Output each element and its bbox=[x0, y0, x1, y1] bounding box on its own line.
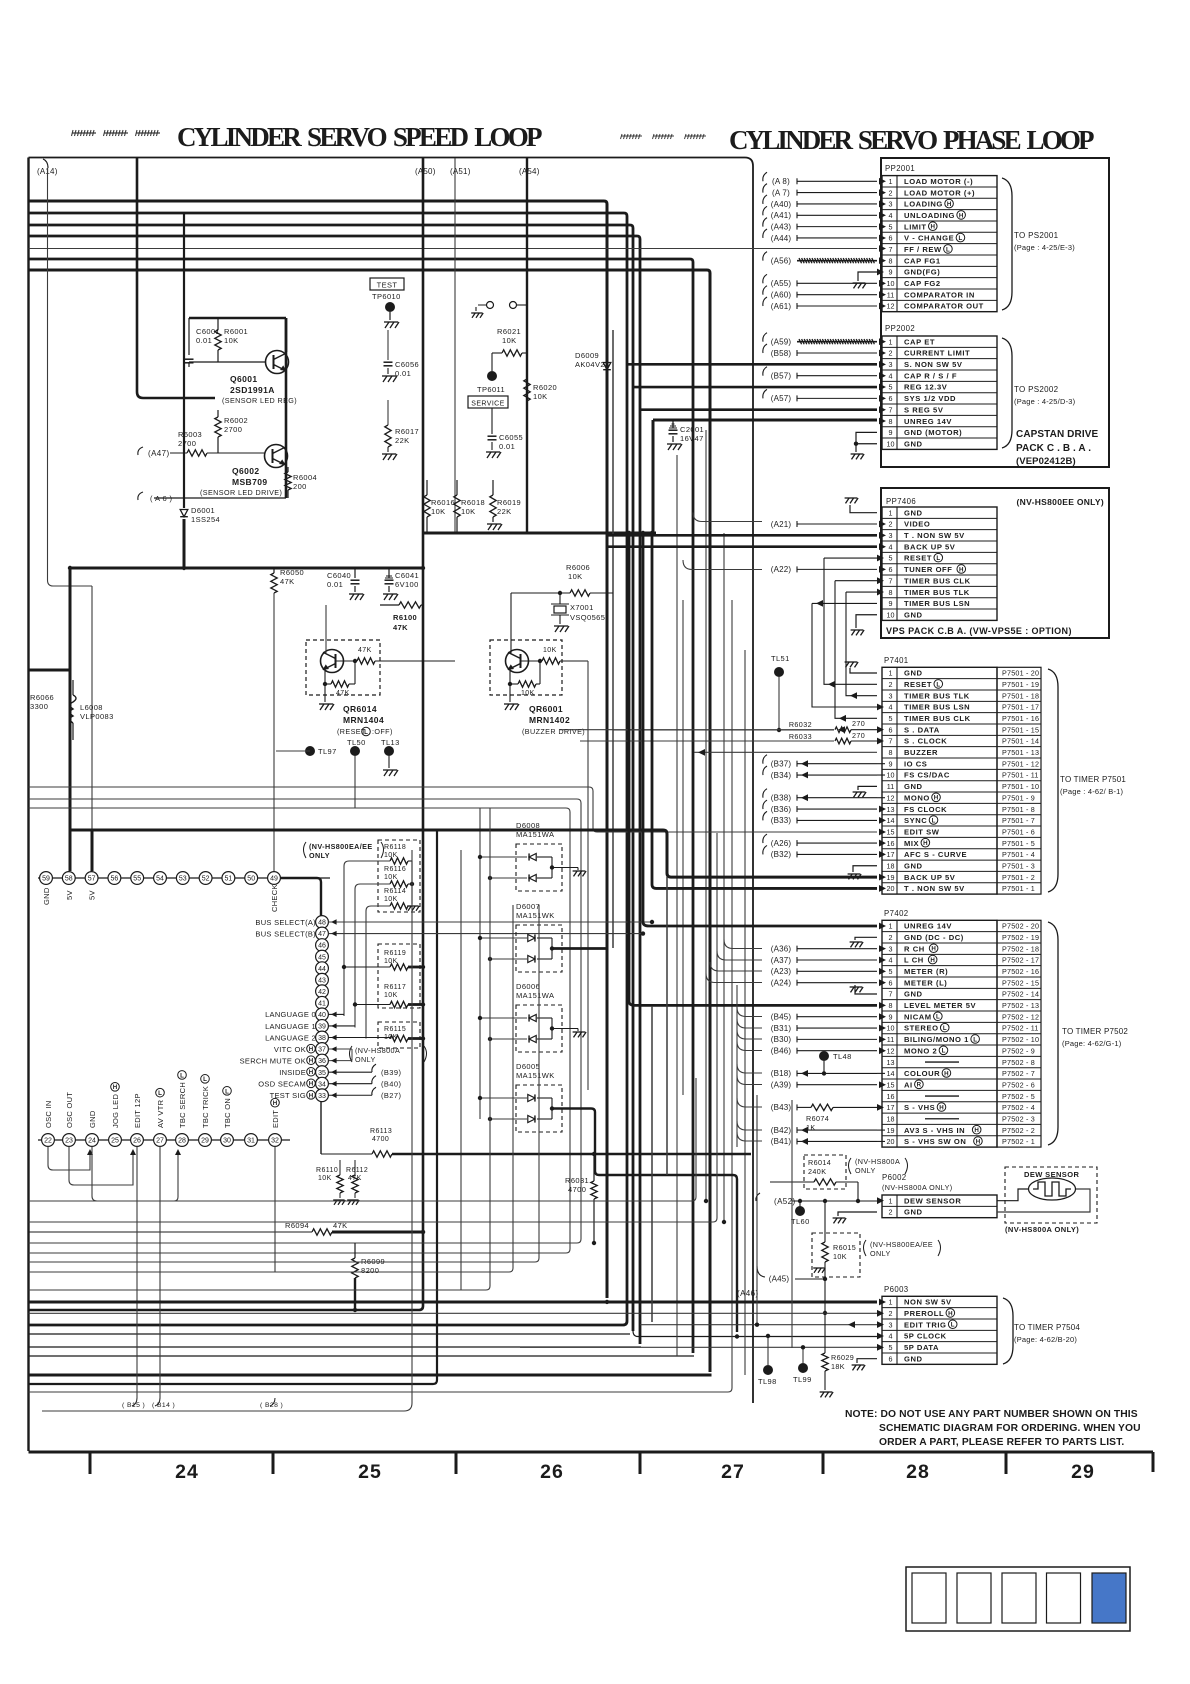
svg-text:(B57): (B57) bbox=[771, 371, 792, 380]
svg-text:GND: GND bbox=[42, 887, 51, 905]
svg-text:R6032: R6032 bbox=[789, 720, 812, 729]
arrows into pin column circles bbox=[331, 919, 337, 924]
svg-text:MIX: MIX bbox=[904, 839, 919, 848]
svg-text:5: 5 bbox=[889, 967, 893, 976]
resistor R6016 bbox=[424, 495, 430, 517]
svg-text:7: 7 bbox=[889, 405, 893, 414]
node B37 bbox=[763, 755, 767, 764]
svg-text:TL50: TL50 bbox=[347, 738, 366, 747]
svg-text:10K: 10K bbox=[461, 507, 476, 516]
svg-text:L CH: L CH bbox=[904, 956, 924, 965]
wire PP2002 pin3 thick bbox=[627, 363, 877, 366]
svg-text:52: 52 bbox=[202, 876, 210, 883]
node A43 bbox=[763, 218, 767, 227]
svg-text:28: 28 bbox=[906, 1461, 930, 1483]
node A52 bbox=[756, 1193, 760, 1201]
wire left border vertical bbox=[27, 158, 29, 1452]
svg-text:P7501 - 3: P7501 - 3 bbox=[1002, 861, 1035, 870]
ground P7401 pin18 bbox=[853, 866, 877, 872]
svg-text:8: 8 bbox=[889, 256, 893, 265]
wire A54 vertical bbox=[526, 158, 528, 533]
wire P7401 pin4 staircase bbox=[812, 603, 877, 707]
svg-text:10K: 10K bbox=[502, 336, 517, 345]
svg-text:27: 27 bbox=[721, 1461, 745, 1483]
svg-text:9: 9 bbox=[889, 428, 893, 437]
svg-text:22K: 22K bbox=[395, 436, 410, 445]
svg-text:Q6002: Q6002 bbox=[232, 466, 260, 476]
svg-text:29: 29 bbox=[201, 1138, 209, 1145]
svg-text:6: 6 bbox=[889, 978, 893, 987]
node A44 bbox=[763, 229, 767, 238]
svg-text:10: 10 bbox=[887, 1024, 895, 1033]
svg-text:5: 5 bbox=[889, 222, 893, 231]
wire P6003 pin5 bbox=[520, 1346, 877, 1348]
test point TL60 bbox=[795, 1206, 805, 1216]
wire pin22 hook bbox=[48, 1147, 90, 1171]
wire Q-block right x286 bbox=[285, 318, 288, 498]
svg-text:RESET: RESET bbox=[904, 554, 932, 563]
wire PP7406 pin3 thick bbox=[607, 534, 877, 537]
svg-text:15: 15 bbox=[887, 827, 895, 836]
svg-text:R CH: R CH bbox=[904, 944, 925, 953]
wire right block edge vertical bbox=[752, 166, 754, 1403]
node B58 bbox=[763, 344, 767, 353]
svg-text:5P DATA: 5P DATA bbox=[904, 1343, 939, 1352]
svg-text:(B43): (B43) bbox=[771, 1103, 792, 1112]
svg-text:13: 13 bbox=[887, 1058, 895, 1067]
svg-text:51: 51 bbox=[225, 876, 233, 883]
svg-text:MSB709: MSB709 bbox=[232, 477, 267, 487]
svg-text:47: 47 bbox=[318, 931, 326, 938]
transistor QR6001 bbox=[506, 650, 529, 673]
svg-text:NON SW 5V: NON SW 5V bbox=[904, 1298, 952, 1307]
svg-text:8: 8 bbox=[889, 1001, 893, 1010]
wire bus B y213 bbox=[29, 213, 628, 1325]
wire bus bottom thick y1375 bbox=[29, 1374, 712, 1377]
svg-text:(BUZZER DRIVE): (BUZZER DRIVE) bbox=[522, 727, 585, 736]
svg-text:(A23): (A23) bbox=[771, 967, 792, 976]
svg-text:6: 6 bbox=[889, 565, 893, 574]
svg-text:P7501 - 17: P7501 - 17 bbox=[1002, 703, 1039, 712]
brace P7401 bbox=[1048, 669, 1058, 892]
wire vertical x732 bbox=[29, 600, 733, 1392]
wire thick y568 bbox=[70, 567, 423, 570]
wire PP7406 pin5 staircase bbox=[824, 557, 877, 559]
capacitor C6056 bbox=[387, 330, 389, 360]
wire bus D y236 bbox=[29, 236, 641, 1344]
svg-text:H: H bbox=[944, 1070, 949, 1077]
node B33 bbox=[763, 811, 767, 820]
svg-text:H: H bbox=[959, 566, 964, 573]
svg-text:R6100: R6100 bbox=[393, 613, 417, 622]
svg-text:L: L bbox=[932, 817, 936, 824]
svg-text:8: 8 bbox=[889, 588, 893, 597]
svg-text:10K: 10K bbox=[533, 392, 548, 401]
svg-text:40: 40 bbox=[318, 1012, 326, 1019]
svg-text:7: 7 bbox=[889, 737, 893, 746]
svg-text:EDIT 12P: EDIT 12P bbox=[133, 1093, 142, 1128]
wire PP2002 pin7 thick bbox=[640, 408, 877, 411]
svg-text:TIMER BUS TLK: TIMER BUS TLK bbox=[904, 588, 970, 597]
svg-text:14: 14 bbox=[887, 816, 895, 825]
svg-text:19: 19 bbox=[887, 1126, 895, 1135]
wire A50 vertical long bbox=[29, 158, 424, 1310]
svg-text:(A21): (A21) bbox=[771, 520, 792, 529]
svg-text:20: 20 bbox=[887, 1137, 895, 1146]
svg-text:SYNC: SYNC bbox=[904, 816, 927, 825]
svg-text:4700: 4700 bbox=[372, 1136, 389, 1143]
svg-text:5: 5 bbox=[889, 714, 893, 723]
svg-text:(B27): (B27) bbox=[381, 1091, 401, 1100]
svg-text:10K: 10K bbox=[521, 690, 535, 697]
resistor R6015 dashed box bbox=[812, 1233, 860, 1277]
svg-text:R6015: R6015 bbox=[833, 1243, 856, 1252]
svg-text:UNREG 14V: UNREG 14V bbox=[904, 417, 952, 426]
svg-text:GND: GND bbox=[88, 1110, 97, 1128]
transistor Q6001 bbox=[266, 351, 289, 374]
svg-text:TIMER BUS LSN: TIMER BUS LSN bbox=[904, 703, 970, 712]
svg-text:(A36): (A36) bbox=[771, 944, 792, 953]
svg-text:L: L bbox=[946, 246, 950, 253]
svg-text:18: 18 bbox=[887, 861, 895, 870]
svg-text:INSIDE: INSIDE bbox=[279, 1068, 306, 1077]
svg-text:(A 8): (A 8) bbox=[772, 177, 790, 186]
resistor R6001 bbox=[215, 330, 221, 350]
svg-text:(B18): (B18) bbox=[771, 1069, 792, 1078]
node B57 bbox=[763, 367, 767, 376]
svg-text:P7502 - 1: P7502 - 1 bbox=[1002, 1137, 1035, 1146]
svg-text:PREROLL: PREROLL bbox=[904, 1309, 944, 1318]
wire y1222 bbox=[29, 833, 718, 1222]
wire y1411 bottom bbox=[42, 850, 412, 1411]
resistor R6004 bbox=[285, 472, 291, 490]
brace P6003 bbox=[1003, 1298, 1013, 1364]
svg-text:16: 16 bbox=[887, 839, 895, 848]
svg-text:10K: 10K bbox=[833, 1252, 847, 1261]
svg-text:H: H bbox=[930, 957, 935, 964]
svg-text:VSQ0565: VSQ0565 bbox=[570, 613, 605, 622]
ruler tick bbox=[89, 1452, 92, 1474]
svg-text:(B31): (B31) bbox=[771, 1024, 792, 1033]
node B39 bbox=[372, 1064, 376, 1072]
svg-text:X7001: X7001 bbox=[570, 603, 594, 612]
svg-text:R6118: R6118 bbox=[384, 844, 406, 851]
svg-text:L: L bbox=[936, 555, 940, 562]
wire vertical x677 bbox=[676, 455, 678, 1356]
resistor R6017 bbox=[385, 425, 391, 447]
svg-text:H: H bbox=[273, 1100, 278, 1107]
node A8 bbox=[763, 172, 767, 181]
svg-text:P7501 - 11: P7501 - 11 bbox=[1002, 771, 1039, 780]
svg-text:S. NON SW 5V: S. NON SW 5V bbox=[904, 360, 963, 369]
svg-text:2700: 2700 bbox=[224, 425, 242, 434]
wire P6003 pin4 arrow bbox=[877, 1333, 884, 1340]
svg-text:4: 4 bbox=[889, 542, 893, 551]
brace PP2001 bbox=[1002, 178, 1012, 310]
svg-text:OSD SECAM: OSD SECAM bbox=[258, 1080, 306, 1089]
svg-text:(NV-HS800EA/EE: (NV-HS800EA/EE bbox=[870, 1240, 933, 1249]
svg-text:P7502 - 6: P7502 - 6 bbox=[1002, 1080, 1035, 1089]
resistor R6003 bbox=[187, 450, 207, 456]
wire vertical x184 bbox=[183, 213, 185, 508]
wire R6116 rail left x355 bbox=[355, 884, 390, 1028]
resistor R6018 bbox=[454, 495, 460, 517]
svg-text:SCHEMATIC DIAGRAM FOR ORDER: SCHEMATIC DIAGRAM FOR ORDERING. WHEN YOU bbox=[879, 1423, 1141, 1434]
svg-text:VITC OK: VITC OK bbox=[274, 1045, 306, 1054]
svg-text:AI: AI bbox=[904, 1080, 913, 1089]
svg-text:47K: 47K bbox=[336, 690, 350, 697]
svg-text:(A54): (A54) bbox=[519, 167, 540, 176]
svg-text:56: 56 bbox=[111, 876, 119, 883]
wire x757 vertical bbox=[756, 1095, 758, 1325]
svg-text:VIDEO: VIDEO bbox=[904, 520, 930, 529]
wire y1290 bbox=[29, 808, 491, 1290]
svg-text:P7502 - 8: P7502 - 8 bbox=[1002, 1058, 1035, 1067]
svg-text:46: 46 bbox=[318, 943, 326, 950]
svg-text:33: 33 bbox=[318, 1093, 326, 1100]
svg-text:(NV-HS800A: (NV-HS800A bbox=[355, 1046, 400, 1055]
svg-text:4700: 4700 bbox=[568, 1185, 586, 1194]
svg-text:(NV-HS800EA/EE: (NV-HS800EA/EE bbox=[309, 842, 373, 851]
svg-text:H: H bbox=[309, 1081, 314, 1088]
svg-text:FF / REW: FF / REW bbox=[904, 245, 942, 254]
svg-text:11: 11 bbox=[887, 1035, 894, 1044]
svg-text:TL97: TL97 bbox=[318, 747, 337, 756]
wire R6014 wires bbox=[770, 1181, 814, 1183]
svg-text:PACK C . B . A .: PACK C . B . A . bbox=[1016, 443, 1091, 454]
svg-text:STEREO: STEREO bbox=[904, 1024, 939, 1033]
node A57 bbox=[763, 389, 767, 398]
svg-text:10: 10 bbox=[887, 771, 895, 780]
node A40 bbox=[763, 195, 767, 204]
inductor L6008 bbox=[70, 695, 76, 723]
svg-text:GND: GND bbox=[904, 990, 923, 999]
svg-text:TBC SERCH: TBC SERCH bbox=[178, 1082, 187, 1128]
svg-text:P7501 - 12: P7501 - 12 bbox=[1002, 759, 1039, 768]
box CAPSTAN DRIVE PACK outer bbox=[881, 158, 1109, 467]
wire vertical x480 bbox=[479, 808, 481, 1119]
svg-text:R6020: R6020 bbox=[533, 383, 557, 392]
svg-text:H: H bbox=[923, 840, 928, 847]
label NV-HS800EA/EE ONLY bbox=[304, 842, 307, 858]
wire y730 sdata bbox=[613, 729, 834, 731]
wire vertical x613 bbox=[612, 330, 614, 948]
svg-text:RESET: RESET bbox=[904, 680, 932, 689]
svg-text:TBC TRICK: TBC TRICK bbox=[201, 1086, 210, 1128]
svg-text:S . DATA: S . DATA bbox=[904, 725, 940, 734]
svg-text:4: 4 bbox=[889, 371, 893, 380]
svg-text:PP2002: PP2002 bbox=[885, 324, 915, 333]
test point TL97 bbox=[305, 746, 315, 756]
svg-text:H: H bbox=[931, 224, 936, 231]
svg-text:3: 3 bbox=[889, 1320, 893, 1329]
svg-text:2700: 2700 bbox=[178, 439, 196, 448]
svg-text:R6001: R6001 bbox=[224, 327, 248, 336]
wire pin23 hook bbox=[69, 1147, 133, 1186]
wire P7401 pin2 staircase bbox=[824, 558, 877, 684]
crystal X7001 bbox=[559, 593, 561, 604]
svg-text:D6007: D6007 bbox=[516, 902, 540, 911]
svg-text:(B32): (B32) bbox=[771, 850, 792, 859]
svg-text:(A46): (A46) bbox=[737, 1289, 759, 1298]
test point TP6010 bbox=[370, 278, 404, 290]
svg-text:P7501 - 9: P7501 - 9 bbox=[1002, 793, 1035, 802]
svg-text:TIMER BUS CLK: TIMER BUS CLK bbox=[904, 714, 971, 723]
ruler tick bbox=[455, 1452, 458, 1474]
svg-text:P7501 - 1: P7501 - 1 bbox=[1002, 884, 1035, 893]
svg-text:(A50): (A50) bbox=[415, 167, 436, 176]
brace PP2002 bbox=[1002, 338, 1012, 448]
wire PP7406 pin9 staircase bbox=[812, 602, 877, 604]
svg-text:2: 2 bbox=[889, 1208, 893, 1217]
wire thick y670 left bbox=[29, 669, 71, 672]
svg-text:5V: 5V bbox=[88, 890, 97, 900]
svg-text:S . CLOCK: S . CLOCK bbox=[904, 737, 947, 746]
svg-text:1: 1 bbox=[889, 1298, 893, 1307]
svg-text:UNREG 14V: UNREG 14V bbox=[904, 922, 952, 931]
svg-text:42: 42 bbox=[318, 989, 326, 996]
svg-text:10K: 10K bbox=[568, 572, 583, 581]
node A59 hatched wire bbox=[763, 333, 767, 342]
node A45 bbox=[757, 1266, 765, 1277]
svg-text:36: 36 bbox=[318, 1058, 326, 1065]
svg-text:(B46): (B46) bbox=[771, 1047, 792, 1056]
label NV-HS800A ONLY small bbox=[350, 1046, 353, 1062]
ruler line bbox=[29, 1451, 1154, 1454]
svg-text:(B39): (B39) bbox=[381, 1068, 401, 1077]
nav square 4 bbox=[1047, 1573, 1081, 1623]
svg-text:(NV-HS800A ONLY): (NV-HS800A ONLY) bbox=[882, 1183, 953, 1192]
svg-text:BUS SELECT(A): BUS SELECT(A) bbox=[255, 918, 316, 927]
svg-text:R6116: R6116 bbox=[384, 866, 406, 873]
svg-text:LOAD MOTOR (+): LOAD MOTOR (+) bbox=[904, 188, 975, 197]
wire bus F y270 bbox=[29, 270, 711, 1372]
test point TP6011 bbox=[487, 371, 497, 381]
resistor R6029 bbox=[822, 1353, 828, 1371]
svg-text:QR6001: QR6001 bbox=[529, 704, 563, 714]
svg-text:10: 10 bbox=[887, 610, 895, 619]
svg-text:29: 29 bbox=[1071, 1461, 1095, 1483]
ground P6002 pin2 bbox=[838, 1212, 877, 1216]
svg-text:P7501 - 15: P7501 - 15 bbox=[1002, 725, 1039, 734]
resistor R6014 dashed box bbox=[804, 1155, 846, 1189]
svg-text:R6029: R6029 bbox=[831, 1353, 854, 1362]
resistor R6019 bbox=[490, 495, 496, 517]
svg-text:TP6011: TP6011 bbox=[477, 385, 505, 394]
svg-text:R6112: R6112 bbox=[346, 1167, 368, 1174]
svg-text:R6110: R6110 bbox=[316, 1167, 338, 1174]
svg-text:H: H bbox=[976, 1138, 981, 1145]
svg-text:(NV-HS800EE ONLY): (NV-HS800EE ONLY) bbox=[1017, 497, 1104, 507]
svg-text:10K: 10K bbox=[431, 507, 446, 516]
svg-text:(A60): (A60) bbox=[771, 290, 792, 299]
svg-text:P7501 - 19: P7501 - 19 bbox=[1002, 680, 1039, 689]
svg-text:(A 7): (A 7) bbox=[772, 188, 790, 197]
svg-text:R6115: R6115 bbox=[384, 1026, 406, 1033]
svg-text:12: 12 bbox=[887, 1046, 895, 1055]
svg-text:(B38): (B38) bbox=[771, 794, 792, 803]
svg-text:P7502 - 17: P7502 - 17 bbox=[1002, 956, 1039, 965]
svg-text:COMPARATOR OUT: COMPARATOR OUT bbox=[904, 302, 984, 311]
svg-text:P7501 - 8: P7501 - 8 bbox=[1002, 805, 1035, 814]
svg-text:T . NON SW 5V: T . NON SW 5V bbox=[904, 884, 965, 893]
ground P7401 pin11 bbox=[858, 786, 877, 790]
svg-text:(B45): (B45) bbox=[771, 1012, 792, 1021]
svg-text:( B28 ): ( B28 ) bbox=[260, 1402, 283, 1409]
ground PP7406 pin1 bbox=[850, 505, 877, 513]
svg-text:QR6014: QR6014 bbox=[343, 704, 377, 714]
svg-text:P6003: P6003 bbox=[884, 1285, 909, 1294]
svg-text:10K: 10K bbox=[224, 336, 239, 345]
svg-text:BUS SELECT(B): BUS SELECT(B) bbox=[255, 929, 316, 938]
svg-text:L: L bbox=[364, 729, 368, 736]
svg-text:22: 22 bbox=[44, 1138, 52, 1145]
diode D6001 bbox=[180, 510, 188, 517]
svg-text:7: 7 bbox=[889, 990, 893, 999]
svg-text:P7501 - 18: P7501 - 18 bbox=[1002, 691, 1039, 700]
svg-text:(A44): (A44) bbox=[771, 234, 792, 243]
svg-text:TL98: TL98 bbox=[758, 1377, 777, 1386]
svg-text:R: R bbox=[917, 1082, 922, 1089]
ground PP2001 pin9 bbox=[858, 272, 877, 281]
svg-text:GND (DC - DC): GND (DC - DC) bbox=[904, 933, 964, 942]
svg-text:TL13: TL13 bbox=[381, 738, 400, 747]
svg-text:(B37): (B37) bbox=[771, 759, 792, 768]
svg-text:10K: 10K bbox=[384, 992, 398, 999]
svg-text:P7401: P7401 bbox=[884, 656, 909, 665]
resistor R6119 dashed box group bbox=[378, 944, 420, 1008]
capacitor C6040 bbox=[354, 568, 356, 578]
wire pin27 down bbox=[159, 1147, 161, 1399]
node A7 bbox=[763, 184, 767, 193]
svg-text:3: 3 bbox=[889, 360, 893, 369]
svg-text:P7501 - 14: P7501 - 14 bbox=[1002, 737, 1039, 746]
svg-text:4: 4 bbox=[889, 211, 893, 220]
svg-text:TO TIMER P7504: TO TIMER P7504 bbox=[1014, 1323, 1080, 1332]
wire bus thin y248.5 to PP2001 pin7 bbox=[29, 248, 878, 250]
svg-text:26: 26 bbox=[133, 1138, 141, 1145]
svg-text:12: 12 bbox=[887, 302, 895, 311]
svg-text:R6018: R6018 bbox=[461, 498, 485, 507]
svg-text:SERCH MUTE OK: SERCH MUTE OK bbox=[240, 1056, 306, 1065]
nav square 1 bbox=[912, 1573, 946, 1623]
svg-text:BUZZER: BUZZER bbox=[904, 748, 938, 757]
svg-text:H: H bbox=[934, 795, 939, 802]
svg-text:D6009: D6009 bbox=[575, 351, 599, 360]
svg-text:L: L bbox=[158, 1090, 162, 1097]
wire R6118 rail left x344 bbox=[344, 861, 390, 1016]
svg-text:P7501 - 20: P7501 - 20 bbox=[1002, 669, 1039, 678]
svg-text:TO PS2002: TO PS2002 bbox=[1014, 385, 1059, 394]
svg-text:1: 1 bbox=[889, 922, 893, 931]
svg-text:C6055: C6055 bbox=[499, 433, 523, 442]
wire pin49 to column bbox=[280, 878, 321, 916]
wire bottom y1334 bbox=[29, 1333, 631, 1335]
wire bus select B line bbox=[329, 933, 644, 935]
svg-text:GND: GND bbox=[904, 508, 923, 517]
svg-text:D6006: D6006 bbox=[516, 982, 540, 991]
svg-text:37: 37 bbox=[318, 1047, 326, 1054]
svg-text:200: 200 bbox=[293, 482, 307, 491]
svg-text:R6021: R6021 bbox=[497, 327, 521, 336]
svg-text:23: 23 bbox=[65, 1138, 73, 1145]
svg-text:CAP R / S / F: CAP R / S / F bbox=[904, 371, 957, 380]
svg-text:GND: GND bbox=[904, 610, 923, 619]
svg-text:JOG LED: JOG LED bbox=[111, 1094, 120, 1128]
svg-text:AV3 S - VHS IN: AV3 S - VHS IN bbox=[904, 1126, 965, 1135]
svg-text:T . NON SW 5V: T . NON SW 5V bbox=[904, 531, 965, 540]
svg-text:(Page : 4-25/E-3): (Page : 4-25/E-3) bbox=[1014, 243, 1075, 252]
